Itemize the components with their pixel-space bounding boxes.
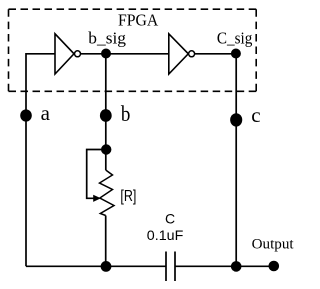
svg-text:a: a	[41, 101, 51, 125]
svg-text:C: C	[165, 210, 175, 226]
svg-text:b_sig: b_sig	[88, 29, 126, 48]
svg-text:C_sig: C_sig	[217, 29, 253, 48]
svg-text:b: b	[121, 101, 130, 126]
svg-text:FPGA: FPGA	[118, 11, 159, 30]
svg-text:0.1uF: 0.1uF	[147, 227, 184, 243]
svg-text:[R]: [R]	[120, 188, 136, 205]
svg-text:c: c	[251, 103, 260, 127]
svg-text:Output: Output	[252, 236, 294, 252]
